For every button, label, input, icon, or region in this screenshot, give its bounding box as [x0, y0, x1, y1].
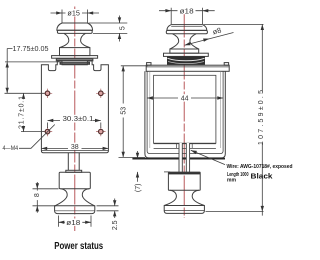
knob neck below (side view) — [164, 190, 176, 205]
svg-text:Black: Black — [251, 172, 274, 181]
svg-text:(7): (7) — [135, 184, 142, 193]
knob cap top (front view) — [57, 23, 93, 30]
mounting hole bottom-right — [96, 127, 105, 136]
frame bottom heavy edge — [132, 158, 225, 160]
dim 21.7 — [21, 93, 45, 131]
mounting hole top-right — [96, 89, 105, 98]
svg-text:ø18: ø18 — [180, 8, 194, 15]
knob neck (front view) — [60, 33, 69, 47]
svg-text:Power status: Power status — [54, 241, 103, 252]
dim 44 — [147, 97, 223, 99]
svg-text:2.5: 2.5 — [112, 220, 119, 230]
dim 5 (cap height) — [89, 16, 128, 42]
svg-text:53: 53 — [120, 107, 127, 115]
wire note leader — [191, 150, 225, 164]
svg-text:44: 44 — [181, 95, 189, 102]
knob neck (side view) — [170, 34, 179, 49]
plunger cylinder — [59, 172, 90, 189]
dim 53 — [119, 66, 148, 158]
svg-text:21.7±0.1: 21.7±0.1 — [19, 96, 26, 129]
svg-text:4—M4: 4—M4 — [3, 145, 19, 152]
plunger stem (front view bottom) — [68, 153, 79, 171]
svg-text:30.3±0.1: 30.3±0.1 — [63, 116, 94, 123]
label phi8 with leader — [184, 33, 233, 46]
plunger collar — [66, 170, 82, 172]
top mounting plate (side view) — [146, 65, 229, 71]
mounting hole top-left — [43, 89, 52, 98]
knob cap (side view) — [167, 25, 207, 31]
svg-text:ø15: ø15 — [67, 11, 80, 18]
dim (7) — [138, 151, 171, 182]
svg-text:Wire: AWG-10718#, exposed: Wire: AWG-10718#, exposed — [227, 164, 293, 170]
plate tab left — [147, 63, 151, 66]
bobbin light edges — [150, 72, 221, 149]
svg-text:38: 38 — [71, 144, 79, 151]
dim 38 — [41, 147, 108, 149]
solenoid body (front view) with castellated top — [41, 61, 108, 153]
svg-text:ø18: ø18 — [66, 220, 80, 227]
dim phi15 — [51, 10, 100, 23]
plate tab right — [224, 63, 228, 66]
svg-text:8: 8 — [34, 193, 41, 197]
svg-text:ø8: ø8 — [212, 26, 223, 37]
frame outer (side view) — [145, 71, 225, 158]
bobbin bottom flange lines — [154, 143, 216, 145]
dim phi18 (side top) — [159, 8, 215, 24]
centerline right view — [183, 8, 185, 219]
centerline left view — [74, 7, 76, 232]
locknut stack (side view) — [167, 56, 205, 65]
plunger disc and cap — [55, 206, 95, 214]
knob cap lip (front view) — [57, 30, 92, 33]
dim 17.75 — [5, 49, 60, 94]
dim 107.59 — [204, 24, 264, 215]
bobbin inner rect — [154, 75, 216, 143]
plunger neck — [55, 189, 67, 206]
armature knob (side view, below frame) — [168, 172, 200, 174]
dim 8 — [33, 182, 59, 213]
dim 2.5 — [97, 199, 119, 219]
knob base block (side view) — [170, 49, 199, 53]
dim phi18 (front bottom) — [59, 216, 92, 227]
locknut stack (front view) — [56, 58, 94, 61]
knob base block (front view) — [60, 48, 90, 56]
mounting hole bottom-left — [43, 127, 52, 136]
lead wires — [179, 143, 182, 172]
svg-text:107.59±0.5: 107.59±0.5 — [258, 90, 265, 145]
svg-text:5: 5 — [119, 26, 126, 30]
frame sheet inner line — [147, 71, 223, 153]
svg-text:mm: mm — [227, 178, 237, 184]
body bottom inner line — [41, 149, 108, 151]
flange washer (front view) — [52, 56, 98, 59]
knob disc and cap (side view) — [164, 206, 204, 214]
knob cap lip (side view) — [166, 30, 207, 33]
dim 30.3 — [48, 121, 101, 129]
flange washer (side view) — [164, 53, 209, 56]
svg-text:17.75±0.05: 17.75±0.05 — [13, 46, 49, 53]
